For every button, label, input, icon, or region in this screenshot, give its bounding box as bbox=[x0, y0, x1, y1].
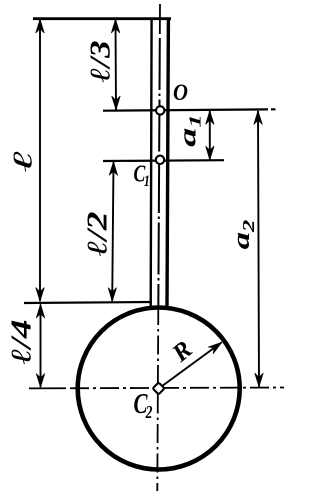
svg-text:ℓ/3: ℓ/3 bbox=[84, 41, 115, 83]
svg-text:O: O bbox=[173, 80, 188, 105]
svg-text:ℓ/4: ℓ/4 bbox=[6, 320, 37, 365]
svg-text:C2: C2 bbox=[134, 389, 153, 422]
svg-text:C1: C1 bbox=[134, 160, 150, 191]
svg-text:ℓ/2: ℓ/2 bbox=[82, 212, 113, 257]
svg-text:ℓ: ℓ bbox=[7, 150, 37, 172]
svg-text:a1: a1 bbox=[174, 114, 204, 147]
svg-text:a2: a2 bbox=[228, 219, 258, 249]
